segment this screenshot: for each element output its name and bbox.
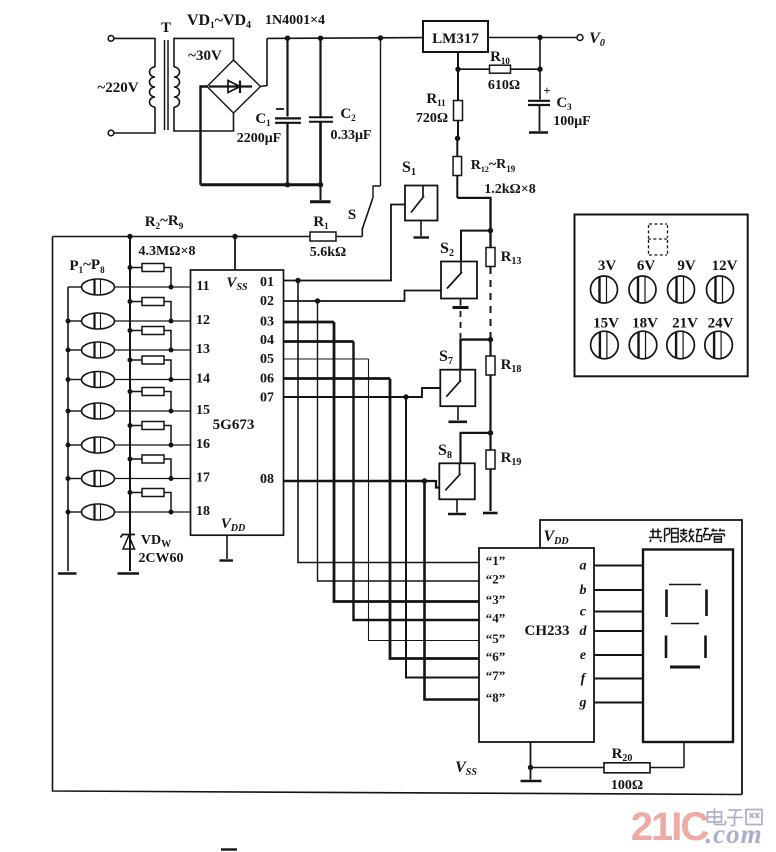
node junction resistor rail: [128, 328, 133, 333]
wire secondary top lead to bridge: [174, 38, 234, 67]
resistor R3: [130, 301, 142, 303]
node junction bus Vss wire: [232, 234, 237, 239]
wire control supply bus: [53, 236, 311, 238]
wire output to C3: [539, 38, 541, 100]
node junction resistor rail: [128, 423, 133, 428]
ground VDw: [118, 572, 140, 575]
wire output 01 to S1: [284, 205, 406, 281]
wire chain to S2: [461, 231, 491, 262]
svg-text:VDD: VDD: [543, 528, 568, 547]
knob 3V: [591, 276, 618, 303]
svg-text:R1: R1: [313, 214, 329, 231]
node junction pin row 18: [169, 510, 174, 515]
svg-text:0.33μF: 0.33μF: [331, 128, 372, 143]
touch pad P5: [82, 403, 115, 419]
svg-text:15V: 15V: [593, 316, 619, 332]
wire output 07 drop to CH233 pin 7: [406, 397, 479, 678]
resistor R10: [458, 68, 490, 70]
knob 9V: [668, 276, 695, 303]
wire pad P1 to left rail: [68, 286, 82, 288]
node junction 07 drop: [403, 394, 408, 399]
resistor R20: [531, 767, 605, 769]
svg-text:S: S: [348, 207, 356, 223]
node junction chain S2 branch: [489, 198, 491, 248]
svg-text:2200μF: 2200μF: [237, 131, 282, 146]
transformer T primary winding: [150, 67, 155, 107]
svg-text:b: b: [580, 583, 587, 598]
node junction pin row 17: [169, 476, 174, 481]
knob 6V: [629, 276, 656, 303]
wire pad P1 to pin 11: [115, 286, 191, 288]
svg-text:5.6kΩ: 5.6kΩ: [310, 245, 347, 260]
wire pad P2 to left rail: [68, 320, 82, 322]
wire CH233 Vss down: [530, 742, 532, 768]
svg-text:610Ω: 610Ω: [488, 78, 520, 93]
node junction ADJ R10 R11: [455, 67, 460, 72]
regulator U1 LM317: [423, 21, 488, 52]
wire output 06: [284, 377, 391, 380]
node junction left rail: [66, 476, 71, 481]
mark bottom edge tick: [221, 848, 237, 850]
display segment b: [705, 590, 708, 617]
border display module box: [540, 520, 742, 795]
svg-text:9V: 9V: [677, 258, 696, 274]
svg-text:16: 16: [196, 437, 210, 452]
transformer T secondary winding: [174, 67, 180, 107]
svg-text:01: 01: [260, 275, 274, 290]
ground Vss: [530, 768, 532, 780]
svg-text:08: 08: [260, 472, 274, 487]
node junction pin row 13: [169, 348, 174, 353]
node junction R11 S1 wire: [455, 136, 460, 141]
touch pad P2: [82, 313, 115, 329]
node junction chain S7 branch: [488, 337, 493, 342]
svg-text:LM317: LM317: [432, 31, 479, 47]
node AC input terminal bottom: [108, 130, 114, 136]
svg-text:R19: R19: [501, 450, 522, 468]
wire output 08 to S8: [284, 480, 425, 483]
display DS1 seven-segment box: [643, 550, 733, 743]
knob 18V: [629, 331, 657, 359]
wire VDD pin down: [226, 535, 228, 559]
svg-text:18: 18: [196, 504, 210, 519]
wire LM317 output: [488, 37, 577, 39]
switch S8 blade: [459, 463, 461, 475]
IC U2 5G673 box: [191, 270, 284, 535]
svg-text:2CW60: 2CW60: [138, 551, 183, 566]
svg-text:~220V: ~220V: [97, 80, 138, 96]
wire pad P4 to pin 14: [115, 379, 191, 381]
node junction pin row 12: [169, 319, 174, 324]
wire pad P6 to left rail: [68, 444, 82, 446]
wire positive DC rail to LM317: [267, 37, 423, 40]
svg-text:R20: R20: [612, 746, 633, 764]
svg-text:C1: C1: [255, 111, 271, 128]
svg-text:03: 03: [260, 315, 274, 330]
touch pad P8: [82, 504, 115, 520]
svg-text:VD1~VD4: VD1~VD4: [187, 12, 251, 31]
switch S8 box: [439, 463, 475, 499]
svg-text:S8: S8: [438, 442, 452, 461]
svg-text:f: f: [581, 672, 587, 687]
wire dashed omitted S3-S6 left: [460, 311, 462, 338]
wire segment b: [594, 589, 643, 591]
wire pad P7 to left rail: [68, 478, 82, 480]
wire pad P2 to pin 12: [115, 320, 191, 322]
wire Vss pin to bus: [234, 237, 236, 271]
resistor R12 of R12~R19: [456, 138, 458, 156]
resistor R9: [130, 492, 142, 494]
svg-text:11: 11: [196, 279, 209, 294]
wire segment a: [594, 564, 643, 566]
switch S2 box: [441, 262, 477, 299]
ground VDD pin: [220, 559, 234, 561]
svg-text:12: 12: [196, 313, 210, 328]
node junction resistor rail: [128, 358, 133, 363]
svg-text:“1”: “1”: [486, 553, 506, 568]
wire secondary bottom lead to bridge: [174, 107, 234, 131]
wire pad P5 to pin 15: [115, 410, 191, 412]
ground C3: [529, 131, 548, 134]
wire output 07 to S7: [284, 396, 407, 398]
svg-text:R10: R10: [490, 49, 510, 66]
svg-text:.com: .com: [705, 819, 762, 849]
svg-text:18V: 18V: [632, 316, 658, 332]
svg-text:V0: V0: [589, 30, 605, 49]
wire bridge right corner up to positive rail: [261, 38, 268, 86]
resistor R19: [489, 433, 491, 450]
node AC input terminal top: [108, 36, 114, 42]
ground S1: [420, 221, 422, 237]
resistor R13: [486, 248, 495, 267]
wire primary top lead: [114, 38, 155, 67]
wire segment f: [594, 677, 643, 679]
wire pad P8 to pin 18: [115, 511, 191, 513]
node junction C2 bottom: [318, 182, 323, 187]
display segment d: [670, 666, 700, 669]
svg-text:VSS: VSS: [226, 275, 248, 293]
wire output 03: [284, 321, 335, 324]
svg-text:R13: R13: [501, 249, 522, 267]
svg-text:+: +: [543, 83, 550, 98]
capacitor C3: [528, 100, 550, 102]
wire output 02 drop to CH233 pin 2: [318, 301, 480, 581]
wire pad P4 to left rail: [68, 379, 82, 381]
svg-text:R2~R9: R2~R9: [145, 213, 184, 231]
node junction switch S wire on rail: [378, 35, 383, 40]
svg-text:100Ω: 100Ω: [611, 778, 643, 793]
svg-text:12V: 12V: [712, 258, 738, 274]
svg-text:07: 07: [260, 391, 274, 406]
wire R20 to display: [683, 742, 685, 768]
bar below S2: [460, 299, 462, 306]
wire pad P3 to pin 13: [115, 349, 191, 351]
knob 21V: [667, 331, 695, 359]
svg-text:R12~R19: R12~R19: [471, 157, 516, 174]
wire R12 to resistor chain: [457, 198, 490, 248]
node junction left rail: [66, 510, 71, 515]
node junction C2 on rail: [318, 36, 323, 41]
ground S7: [457, 406, 459, 420]
svg-text:CH233: CH233: [525, 623, 570, 639]
touch pad P3: [82, 342, 115, 358]
svg-text:“4”: “4”: [486, 611, 506, 626]
switch S2 blade: [460, 262, 462, 274]
node junction 02 drop: [315, 298, 320, 303]
svg-text:VDW: VDW: [141, 533, 171, 550]
wire output 03 drop to CH233 pin 3: [334, 322, 479, 602]
svg-text:5G673: 5G673: [213, 417, 255, 433]
svg-text:e: e: [580, 648, 586, 663]
panel box: [575, 215, 748, 377]
resistor R6: [130, 391, 142, 393]
node junction C1 bottom: [285, 182, 290, 187]
resistor R8: [130, 458, 142, 460]
node junction left rail: [66, 319, 71, 324]
resistor R4: [130, 330, 142, 332]
IC U3 CH233 box: [479, 548, 594, 742]
svg-text:~30V: ~30V: [188, 48, 222, 64]
wire pad P3 to left rail: [68, 349, 82, 351]
touch pad P7: [82, 471, 115, 487]
svg-text:1N4001×4: 1N4001×4: [265, 13, 325, 28]
wire output 02 to S2: [284, 291, 442, 302]
svg-text:100μF: 100μF: [553, 114, 591, 129]
svg-text:06: 06: [260, 372, 274, 387]
svg-text:14: 14: [196, 372, 210, 387]
display segment c: [704, 636, 707, 659]
label common cathode digital tube: [649, 529, 725, 543]
bridge diode symbol: [209, 85, 252, 87]
wire output 04: [284, 340, 354, 343]
node output terminal Vo: [577, 35, 583, 41]
svg-text:3V: 3V: [598, 258, 617, 274]
logo dianziwang: [708, 809, 763, 826]
svg-text:“6”: “6”: [486, 649, 506, 664]
node junction left rail: [66, 409, 71, 414]
svg-text:720Ω: 720Ω: [416, 111, 448, 126]
resistor R7: [130, 425, 142, 427]
wire primary bottom lead: [114, 107, 155, 133]
svg-text:S1: S1: [402, 159, 416, 178]
svg-text:c: c: [580, 605, 587, 620]
wire chain to S7: [461, 340, 491, 370]
transformer T core: [164, 40, 166, 130]
wire output 05 drop to CH233 pin 5: [369, 359, 480, 641]
resistor R1: [337, 236, 363, 238]
wire LM317 ADJ pin down: [457, 52, 459, 69]
switch S1 box: [405, 186, 438, 221]
wire bottom bus of rectifier: [201, 183, 322, 186]
wire output 04 drop to CH233 pin 4: [354, 342, 480, 621]
node junction resistor rail: [128, 490, 133, 495]
wire output 08 drop to CH233 pin 8: [425, 481, 480, 700]
wire dashed omitted R14-R17: [490, 267, 492, 339]
switch S: [373, 186, 381, 198]
wire touch pad left rail: [67, 287, 69, 571]
display segment f: [665, 590, 668, 618]
wire segment d: [594, 630, 643, 632]
svg-text:C2: C2: [340, 106, 356, 123]
node junction pin row 11: [169, 285, 174, 290]
resistor R18: [489, 340, 491, 357]
svg-text:“2”: “2”: [486, 572, 506, 587]
svg-text:1.2kΩ×8: 1.2kΩ×8: [484, 182, 535, 197]
svg-text:02: 02: [260, 294, 274, 309]
wire pad P8 to left rail: [68, 511, 82, 513]
knob 12V: [707, 276, 734, 303]
svg-text:C3: C3: [556, 95, 572, 112]
wire resistor rail vertical: [129, 237, 131, 539]
svg-text:T: T: [161, 20, 171, 36]
svg-text:“8”: “8”: [486, 690, 506, 705]
svg-text:VSS: VSS: [455, 759, 477, 778]
ground R19: [483, 512, 498, 515]
node junction resistor rail: [128, 389, 133, 394]
wire segment c: [594, 610, 643, 612]
svg-text:R18: R18: [501, 357, 522, 375]
capacitor C2: [319, 38, 321, 117]
ground touch pad rail: [58, 572, 77, 575]
node junction 08 drop: [422, 478, 427, 483]
bridge rectifier VD1-VD4 diamond: [207, 60, 261, 113]
display segment e: [665, 636, 668, 659]
node junction C1 on rail: [285, 36, 290, 41]
wire pad P5 to left rail: [68, 410, 82, 412]
svg-text:15: 15: [196, 403, 210, 418]
wire output 01 drop to CH233 pin 1: [298, 281, 479, 563]
svg-text:17: 17: [196, 471, 210, 486]
wire pad P6 to pin 16: [115, 444, 191, 446]
switch S7 box: [440, 370, 475, 407]
node junction 01 drop: [295, 278, 300, 283]
svg-text:13: 13: [196, 342, 210, 357]
wire segment g: [594, 701, 643, 703]
svg-text:VDD: VDD: [221, 516, 245, 534]
touch pad P6: [82, 437, 115, 453]
svg-text:“7”: “7”: [486, 668, 506, 683]
knob 15V: [591, 331, 619, 359]
resistor R5: [130, 359, 142, 361]
wire chain to S8: [461, 433, 491, 463]
node junction pin row 14: [169, 377, 174, 382]
svg-text:“5”: “5”: [486, 631, 506, 646]
panel dashed digit icon: [649, 223, 667, 225]
wire output 05: [284, 358, 369, 360]
node junction pin row 15: [169, 409, 174, 414]
display segment g: [671, 623, 699, 625]
switch S7 blade: [459, 370, 461, 382]
node junction resistor rail: [128, 299, 133, 304]
node junction resistor rail: [128, 265, 133, 270]
node junction pin row 16: [169, 443, 174, 448]
svg-text:“3”: “3”: [486, 592, 506, 607]
zener diode VDw: [129, 536, 131, 571]
svg-text:d: d: [580, 624, 588, 639]
svg-text:6V: 6V: [637, 258, 656, 274]
svg-text:S7: S7: [439, 348, 453, 367]
node junction output: [537, 35, 542, 40]
svg-text:4.3MΩ×8: 4.3MΩ×8: [139, 244, 196, 259]
svg-text:a: a: [580, 559, 587, 574]
border outer enclosure left and bottom: [53, 237, 743, 795]
wire rail to switch S: [380, 38, 382, 186]
node junction chain S8 branch: [488, 430, 493, 435]
wire pad P7 to pin 17: [115, 478, 191, 480]
wire bridge left corner down: [201, 87, 208, 185]
knob 24V: [705, 331, 733, 359]
capacitor C1: [286, 38, 288, 116]
svg-text:04: 04: [260, 333, 274, 348]
node junction left rail: [66, 377, 71, 382]
svg-text:21IC: 21IC: [631, 805, 709, 849]
display segment a: [669, 584, 701, 586]
svg-text:S2: S2: [440, 240, 454, 259]
touch pad P4: [82, 372, 115, 388]
ground S8: [456, 499, 458, 512]
svg-text:05: 05: [260, 352, 274, 367]
svg-text:24V: 24V: [708, 316, 734, 332]
switch S1 blade: [422, 186, 424, 198]
svg-text:21V: 21V: [672, 316, 698, 332]
resistor R2: [130, 267, 142, 269]
node junction R10 right: [537, 67, 542, 72]
wire output 06 drop to CH233 pin 6: [390, 379, 479, 659]
svg-text:R11: R11: [426, 91, 446, 108]
svg-text:g: g: [579, 696, 587, 711]
resistor R11: [457, 69, 459, 100]
node junction bus R-rail: [127, 234, 132, 239]
node junction left rail: [66, 443, 71, 448]
ground rectifier bus: [320, 185, 322, 200]
wire segment e: [594, 654, 643, 656]
svg-text:P1~P8: P1~P8: [69, 257, 105, 275]
touch pad P1: [82, 279, 115, 295]
node junction resistor rail: [128, 457, 133, 462]
node junction Vss R20: [528, 765, 533, 770]
node junction left rail: [66, 348, 71, 353]
